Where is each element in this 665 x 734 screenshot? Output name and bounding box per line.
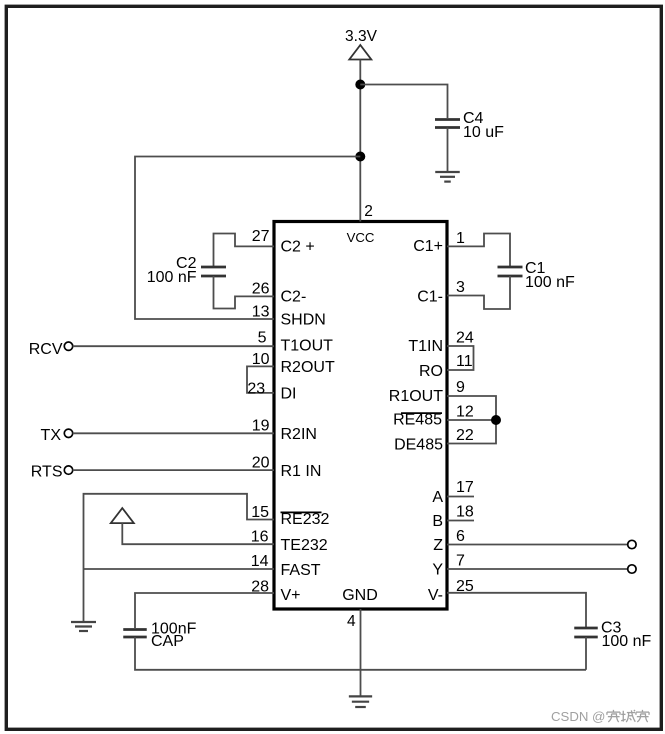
svg-text:4: 4 bbox=[347, 613, 356, 630]
svg-text:3: 3 bbox=[456, 279, 465, 296]
svg-text:DI: DI bbox=[281, 386, 297, 403]
svg-text:RCV: RCV bbox=[29, 341, 63, 358]
svg-text:Z: Z bbox=[433, 537, 443, 554]
svg-text:VCC: VCC bbox=[347, 230, 375, 245]
svg-text:SHDN: SHDN bbox=[281, 311, 326, 328]
svg-text:100 nF: 100 nF bbox=[602, 633, 652, 650]
svg-text:13: 13 bbox=[252, 304, 270, 321]
svg-text:V+: V+ bbox=[281, 587, 301, 604]
svg-text:27: 27 bbox=[252, 228, 270, 245]
svg-text:20: 20 bbox=[252, 454, 270, 471]
svg-text:1: 1 bbox=[456, 230, 465, 247]
svg-text:C2 +: C2 + bbox=[281, 239, 315, 256]
svg-text:B: B bbox=[432, 513, 443, 530]
svg-text:19: 19 bbox=[252, 418, 270, 435]
svg-text:RE232: RE232 bbox=[281, 511, 330, 528]
svg-text:GND: GND bbox=[342, 587, 378, 604]
svg-text:25: 25 bbox=[456, 578, 474, 595]
svg-text:RTS: RTS bbox=[31, 463, 63, 480]
svg-text:17: 17 bbox=[456, 479, 474, 496]
svg-text:R1OUT: R1OUT bbox=[389, 388, 443, 405]
svg-text:24: 24 bbox=[456, 330, 474, 347]
svg-text:C1+: C1+ bbox=[413, 238, 443, 255]
svg-text:16: 16 bbox=[251, 529, 269, 546]
svg-text:Y: Y bbox=[432, 562, 443, 579]
svg-text:9: 9 bbox=[456, 379, 465, 396]
svg-text:C2-: C2- bbox=[281, 289, 307, 306]
svg-text:3.3V: 3.3V bbox=[345, 28, 378, 45]
svg-text:CSDN @: CSDN @ bbox=[551, 709, 605, 724]
svg-text:6: 6 bbox=[456, 528, 465, 545]
svg-text:10: 10 bbox=[252, 351, 270, 368]
svg-text:DE485: DE485 bbox=[394, 437, 443, 454]
svg-text:100 nF: 100 nF bbox=[147, 269, 197, 286]
svg-text:28: 28 bbox=[251, 578, 269, 595]
svg-text:R1 IN: R1 IN bbox=[281, 463, 322, 480]
svg-text:12: 12 bbox=[456, 404, 474, 421]
svg-text:23: 23 bbox=[247, 380, 265, 397]
svg-text:10 uF: 10 uF bbox=[463, 124, 504, 141]
svg-text:RO: RO bbox=[419, 363, 443, 380]
svg-text:T1OUT: T1OUT bbox=[281, 338, 334, 355]
svg-text:2: 2 bbox=[364, 203, 373, 220]
svg-text:FAST: FAST bbox=[281, 562, 321, 579]
svg-text:11: 11 bbox=[456, 353, 473, 370]
svg-text:CAP: CAP bbox=[151, 633, 184, 650]
svg-text:26: 26 bbox=[252, 281, 270, 298]
svg-text:A: A bbox=[432, 489, 443, 506]
svg-text:V-: V- bbox=[428, 587, 443, 604]
svg-text:14: 14 bbox=[251, 553, 269, 570]
svg-text:R2IN: R2IN bbox=[281, 426, 317, 443]
svg-text:100 nF: 100 nF bbox=[525, 274, 575, 291]
svg-text:22: 22 bbox=[456, 427, 474, 444]
svg-text:5: 5 bbox=[258, 330, 267, 347]
svg-text:15: 15 bbox=[251, 504, 269, 521]
svg-text:TX: TX bbox=[41, 427, 62, 444]
svg-text:7: 7 bbox=[456, 553, 465, 570]
svg-text:TE232: TE232 bbox=[281, 537, 328, 554]
svg-text:18: 18 bbox=[456, 504, 474, 521]
svg-text:C1-: C1- bbox=[417, 289, 443, 306]
svg-text:RE485: RE485 bbox=[393, 412, 442, 429]
svg-text:R2OUT: R2OUT bbox=[281, 359, 335, 376]
svg-text:T1IN: T1IN bbox=[408, 338, 443, 355]
